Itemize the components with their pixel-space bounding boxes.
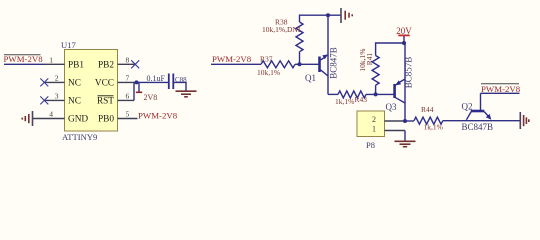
svg-text:7: 7 xyxy=(126,73,130,82)
wire R38 top to emitter node xyxy=(300,15,341,22)
svg-text:10k,1%: 10k,1% xyxy=(257,68,280,77)
svg-text:Q3: Q3 xyxy=(386,102,397,112)
pin 2 stub xyxy=(45,81,65,83)
transistor Q1 BC847B xyxy=(320,15,329,94)
svg-text:10k,1%,DNI: 10k,1%,DNI xyxy=(262,25,301,34)
transistor Q3 BC857B xyxy=(395,43,405,121)
svg-text:4: 4 xyxy=(49,110,53,119)
svg-text:NC: NC xyxy=(68,79,81,89)
svg-text:20V: 20V xyxy=(396,26,412,36)
ground symbol right (Q2 emitter) xyxy=(520,112,529,129)
svg-text:R43: R43 xyxy=(355,95,368,104)
pin 7 stub (VCC) xyxy=(118,81,137,83)
svg-text:VCC: VCC xyxy=(95,79,114,89)
svg-text:5: 5 xyxy=(126,110,130,119)
wire Q1 collector to R43 xyxy=(328,93,338,95)
svg-text:GND: GND xyxy=(68,115,88,125)
svg-text:NC: NC xyxy=(68,97,81,107)
power port 20V xyxy=(396,26,412,43)
no-connect X on pin 2 xyxy=(40,78,48,86)
IC U17 body xyxy=(65,50,118,132)
pin 5 stub (PB0) xyxy=(118,118,138,120)
pin 1 stub xyxy=(45,63,65,65)
svg-text:PWM-2V8: PWM-2V8 xyxy=(138,111,178,121)
junction dot R41/base node xyxy=(374,92,378,96)
svg-text:1k,1%: 1k,1% xyxy=(335,97,354,106)
P8 pin 2 stub xyxy=(385,120,406,122)
resistor R37 xyxy=(261,61,295,68)
junction dot Q1 emitter node xyxy=(326,13,330,17)
svg-text:6: 6 xyxy=(126,91,130,100)
svg-text:BC847B: BC847B xyxy=(329,47,339,79)
wire R44 to Q2 and ground xyxy=(443,120,520,122)
power port 2V8 xyxy=(136,82,157,102)
pin 4 stub (GND) xyxy=(33,118,65,120)
svg-text:R37: R37 xyxy=(260,54,273,63)
pin 3 stub xyxy=(45,99,65,101)
svg-text:U17: U17 xyxy=(61,40,77,50)
pin name RST (active low) xyxy=(97,96,114,107)
capacitor C88 xyxy=(169,74,174,90)
wire R41 bottom to base node xyxy=(375,85,377,94)
svg-text:Q1: Q1 xyxy=(305,73,316,83)
resistor R41 xyxy=(372,56,379,86)
svg-text:1: 1 xyxy=(372,125,376,134)
svg-text:PB1: PB1 xyxy=(68,61,84,71)
junction dot 20V node xyxy=(402,41,406,45)
ground symbol under P8 xyxy=(395,141,416,146)
svg-text:R41: R41 xyxy=(365,53,374,66)
wire R43 to Q3 base xyxy=(366,93,395,95)
wire VCC net to capacitor xyxy=(136,81,169,83)
svg-text:2V8: 2V8 xyxy=(144,93,158,102)
net label PWM-2V8 (left) xyxy=(4,54,44,64)
wire Q2 base to PWM-2V8 xyxy=(481,92,520,94)
ground symbol top (Q1 emitter) xyxy=(341,8,352,23)
junction dot R38/base node xyxy=(298,62,302,66)
wire collector node to R44 xyxy=(405,120,414,122)
svg-text:8: 8 xyxy=(126,55,130,64)
svg-text:1: 1 xyxy=(49,55,53,64)
svg-text:0.1uF: 0.1uF xyxy=(147,74,166,83)
transistor Q2 BC847B xyxy=(466,93,491,120)
connector P8 body xyxy=(357,111,385,137)
resistor R38 xyxy=(296,22,303,52)
svg-text:BC847B: BC847B xyxy=(462,122,494,132)
svg-text:PWM-2V8: PWM-2V8 xyxy=(212,54,252,64)
svg-text:PWM-2V8: PWM-2V8 xyxy=(481,84,521,94)
svg-text:PWM-2V8: PWM-2V8 xyxy=(4,54,44,64)
wire capacitor to ground xyxy=(173,82,186,90)
net label PWM-2V8 (top right) xyxy=(481,84,521,94)
svg-text:3: 3 xyxy=(55,91,59,100)
svg-text:BC857B: BC857B xyxy=(404,57,414,89)
pin 8 stub xyxy=(118,63,136,65)
no-connect X on pin 3 xyxy=(40,96,48,104)
wire R37 to Q1 base xyxy=(295,63,320,65)
ground symbol under C88 xyxy=(176,91,197,97)
wire R41 top to 20V rail xyxy=(376,43,404,56)
junction dot Q3 collector node xyxy=(403,119,407,123)
svg-text:Q2: Q2 xyxy=(462,102,473,112)
resistor R44 xyxy=(414,117,443,124)
P8 pin 1 stub xyxy=(385,130,406,132)
resistor R43 xyxy=(338,91,366,98)
svg-text:R44: R44 xyxy=(421,105,434,114)
svg-text:2: 2 xyxy=(55,73,59,82)
wire PWM-2V8 to R37 xyxy=(211,63,261,65)
svg-text:ATTINY9: ATTINY9 xyxy=(62,132,97,142)
wire R38 bottom to base node xyxy=(299,52,301,65)
svg-text:PB2: PB2 xyxy=(98,61,114,71)
no-connect X on pin 8 xyxy=(131,60,139,68)
svg-text:PB0: PB0 xyxy=(98,115,114,125)
ground symbol left (pin 4) xyxy=(22,111,32,126)
wire P8 pin1 to ground xyxy=(404,131,406,141)
wire PWM-2V8 to pin 1 xyxy=(4,63,45,65)
junction dot VCC node xyxy=(135,80,139,84)
pin 6 stub (RST) xyxy=(118,99,135,101)
svg-text:P8: P8 xyxy=(366,140,375,150)
wire RST riser pin6 to pin7 net xyxy=(133,82,135,100)
svg-text:RST: RST xyxy=(97,97,114,107)
svg-text:2: 2 xyxy=(372,115,376,124)
svg-text:1k,1%: 1k,1% xyxy=(424,123,443,132)
